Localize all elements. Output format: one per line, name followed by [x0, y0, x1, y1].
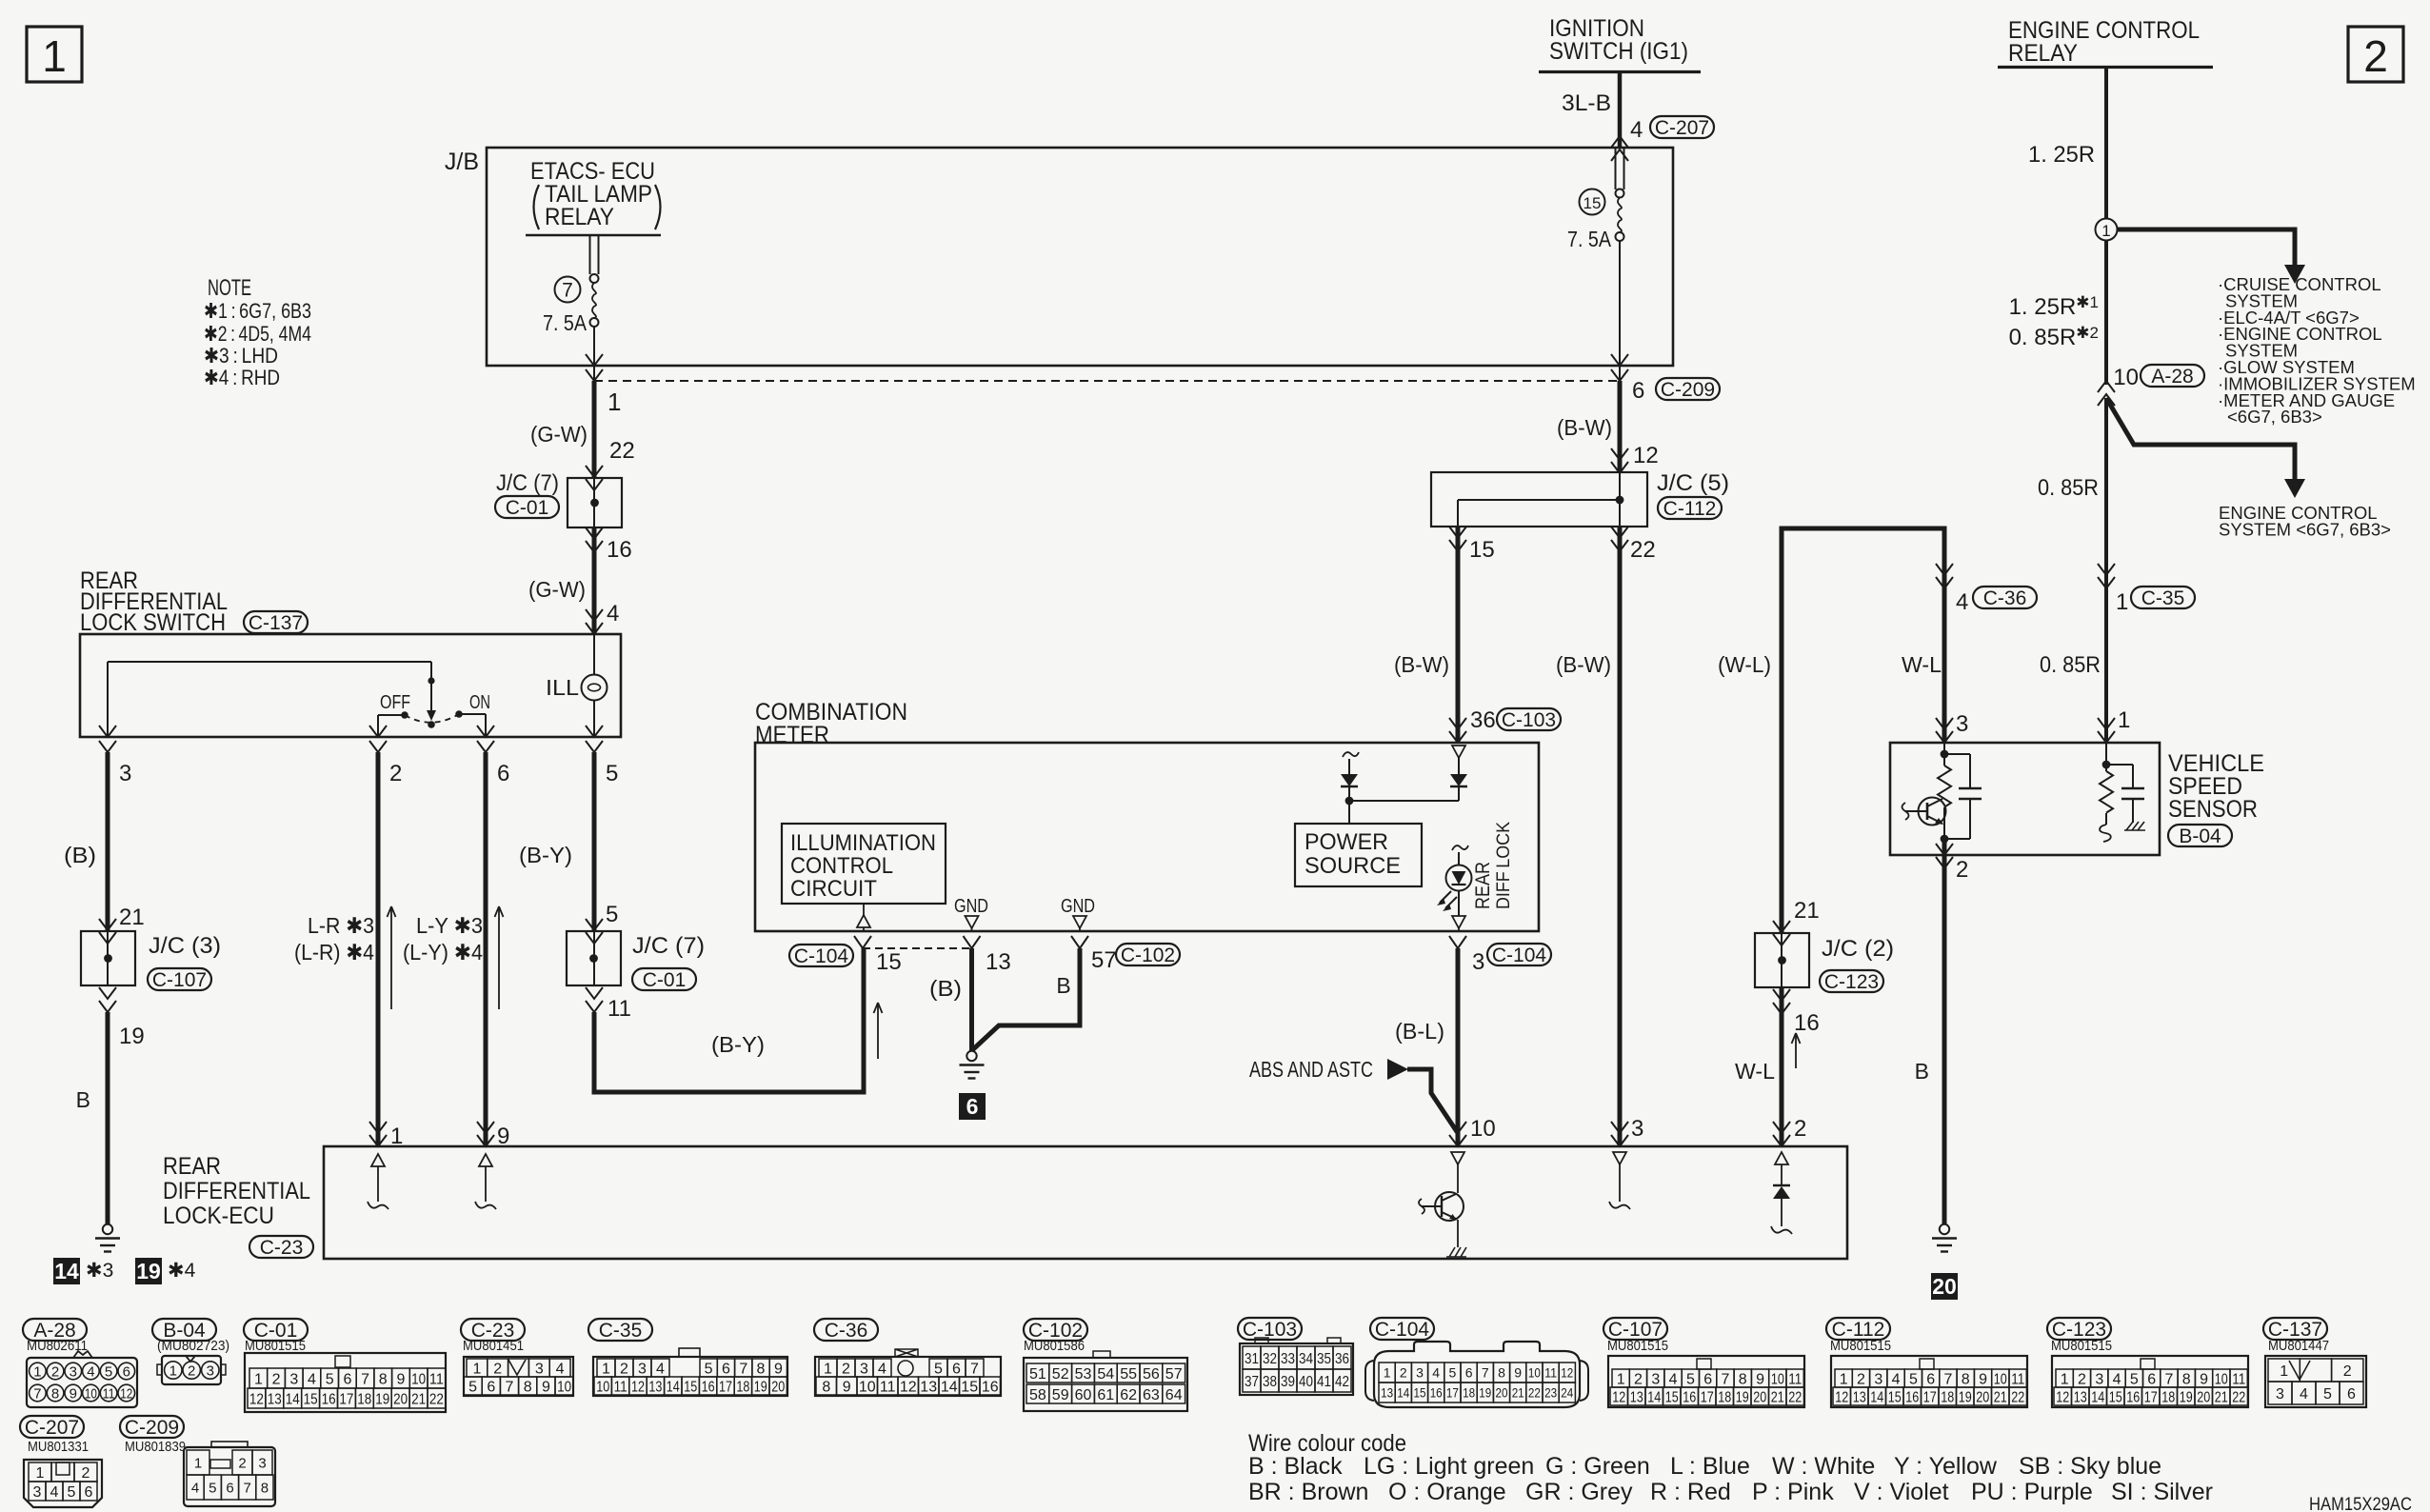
meter pin 13 [964, 936, 981, 948]
svg-text:1: 1 [2280, 1363, 2288, 1380]
rear differential lock switch box [80, 634, 621, 737]
svg-text:18: 18 [1718, 1389, 1731, 1405]
wire W-L down to speed sensor pin 3 [1942, 527, 1947, 744]
svg-text:9: 9 [497, 1124, 509, 1149]
svg-text:3L-B: 3L-B [1562, 90, 1611, 116]
svg-text:(B-W): (B-W) [1394, 652, 1449, 677]
svg-text:7: 7 [1722, 1371, 1730, 1387]
svg-text:13: 13 [920, 1379, 937, 1395]
connector 10 A-28 [2098, 381, 2115, 392]
svg-text:C-35: C-35 [599, 1320, 643, 1342]
svg-text:W-L: W-L [1735, 1059, 1775, 1084]
svg-text:3: 3 [1956, 711, 1968, 737]
svg-text:J/C (7): J/C (7) [496, 470, 559, 496]
svg-text:DIFF LOCK: DIFF LOCK [1494, 822, 1514, 909]
connector C-104 [1370, 1318, 1434, 1340]
svg-text:13: 13 [1853, 1389, 1866, 1405]
power source box [1295, 824, 1422, 886]
svg-text:17: 17 [2144, 1389, 2158, 1405]
svg-text:22: 22 [429, 1391, 444, 1407]
svg-text:12: 12 [249, 1391, 264, 1407]
svg-text:1: 1 [36, 1465, 45, 1482]
svg-text:1: 1 [33, 1363, 41, 1380]
svg-text:PU : Purple: PU : Purple [1971, 1479, 2093, 1505]
svg-text:1. 25R: 1. 25R [2028, 142, 2095, 168]
page ref 14 *3 [53, 1258, 80, 1284]
ECU pin 1 [369, 1122, 387, 1133]
svg-text:✱3: ✱3 [86, 1260, 113, 1282]
svg-text:6: 6 [123, 1363, 130, 1380]
page number box 1 [27, 27, 82, 82]
svg-text:2: 2 [2363, 31, 2388, 81]
sensor internals: output transistor [1919, 798, 1946, 826]
svg-text:2: 2 [2078, 1371, 2086, 1387]
svg-text:21: 21 [1512, 1385, 1524, 1401]
svg-text:10: 10 [1994, 1371, 2007, 1387]
svg-text:5: 5 [468, 1379, 477, 1395]
svg-text:15: 15 [1469, 537, 1495, 563]
wire (G-W) to rear diff lock switch [592, 527, 597, 634]
svg-text:B: B [1056, 973, 1070, 998]
ECU pin 9 [477, 1122, 494, 1133]
svg-text:HAM15X29AC: HAM15X29AC [2309, 1495, 2412, 1512]
svg-text:0. 85R: 0. 85R [2040, 652, 2101, 678]
svg-text:Y : Yellow: Y : Yellow [1894, 1453, 1998, 1480]
svg-text:40: 40 [1299, 1374, 1313, 1390]
svg-text:2: 2 [620, 1361, 628, 1377]
svg-text:6: 6 [952, 1361, 961, 1377]
svg-text:21: 21 [2215, 1389, 2228, 1405]
svg-text:19: 19 [2180, 1389, 2193, 1405]
meter pin 15 C-104 [854, 936, 871, 948]
svg-text:J/C (7): J/C (7) [632, 933, 705, 959]
svg-text:31: 31 [1245, 1351, 1259, 1367]
svg-text:C-107: C-107 [152, 969, 207, 991]
svg-text:15: 15 [1888, 1389, 1902, 1405]
svg-text:8: 8 [524, 1379, 532, 1395]
svg-text:4: 4 [556, 1361, 565, 1377]
page ref 20 [1931, 1273, 1958, 1300]
svg-text:9: 9 [1756, 1371, 1764, 1387]
svg-text:22: 22 [609, 438, 635, 464]
svg-text:C-104: C-104 [1492, 945, 1547, 966]
svg-text:56: 56 [1143, 1366, 1160, 1383]
svg-text:6: 6 [1926, 1371, 1935, 1387]
svg-text:2: 2 [1857, 1371, 1865, 1387]
svg-text:C-36: C-36 [825, 1320, 868, 1342]
svg-text:62: 62 [1120, 1387, 1137, 1403]
ECU pin 2 with diode [1773, 1122, 1790, 1133]
switch pin 2 [369, 726, 387, 737]
svg-text:1: 1 [2061, 1371, 2069, 1387]
svg-text:2: 2 [493, 1361, 502, 1377]
svg-text:16: 16 [2126, 1389, 2140, 1405]
svg-text:7. 5A: 7. 5A [1567, 227, 1612, 251]
svg-text:METER: METER [755, 722, 829, 748]
svg-text:4: 4 [2300, 1386, 2308, 1403]
ground right [1940, 1224, 1949, 1234]
svg-text:✱4 : RHD: ✱4 : RHD [204, 366, 280, 389]
svg-text:CIRCUIT: CIRCUIT [790, 876, 877, 902]
svg-text:14: 14 [941, 1379, 958, 1395]
svg-text:BR : Brown: BR : Brown [1248, 1479, 1368, 1505]
svg-text:(L-Y) ✱4: (L-Y) ✱4 [403, 940, 483, 965]
svg-text:POWER: POWER [1305, 829, 1388, 855]
svg-text:3: 3 [535, 1361, 544, 1377]
svg-text:13: 13 [2074, 1389, 2087, 1405]
svg-text:10: 10 [1528, 1365, 1541, 1381]
connector C-107 [1603, 1318, 1667, 1340]
ON contact [455, 710, 463, 718]
svg-text:7: 7 [739, 1361, 747, 1377]
wire (B-W) to combination meter pin 36 [1456, 527, 1461, 743]
junction block J/B [487, 148, 1673, 366]
connector C-102 [1024, 1319, 1087, 1341]
svg-text:24: 24 [1561, 1385, 1573, 1401]
svg-text:0. 85R: 0. 85R [2038, 475, 2099, 501]
svg-text:8: 8 [822, 1379, 830, 1395]
svg-text:11: 11 [880, 1379, 896, 1395]
svg-text:L-R ✱3: L-R ✱3 [308, 913, 374, 938]
meter internal diodes [1343, 752, 1359, 757]
svg-text:36: 36 [1335, 1351, 1349, 1367]
connector C-209 [120, 1416, 184, 1438]
wire W-L to ECU pin 2 [1780, 987, 1784, 1146]
svg-text:33: 33 [1281, 1351, 1295, 1367]
svg-text:9: 9 [70, 1385, 77, 1402]
svg-text:36: 36 [1470, 707, 1496, 733]
svg-text:17: 17 [1446, 1385, 1459, 1401]
svg-text:21: 21 [1794, 898, 1820, 924]
svg-text:C-103: C-103 [1243, 1319, 1297, 1341]
switch pin 6 [477, 726, 494, 737]
svg-text:SB : Sky blue: SB : Sky blue [2019, 1453, 2161, 1480]
svg-text:55: 55 [1120, 1366, 1137, 1383]
svg-text:16: 16 [1794, 1010, 1820, 1036]
svg-text:15: 15 [1583, 194, 1602, 212]
svg-text:SOURCE: SOURCE [1305, 853, 1401, 879]
svg-text:2: 2 [1794, 1116, 1806, 1142]
svg-text:1: 1 [602, 1361, 610, 1377]
svg-text:19: 19 [1479, 1385, 1491, 1401]
svg-text:10: 10 [411, 1371, 426, 1387]
svg-text:39: 39 [1281, 1374, 1295, 1390]
svg-text:12: 12 [631, 1379, 645, 1395]
svg-text:C-104: C-104 [794, 945, 849, 967]
svg-text:B-04: B-04 [2179, 826, 2221, 847]
svg-text:GND: GND [954, 896, 988, 917]
svg-text:(W-L): (W-L) [1718, 652, 1771, 677]
svg-text:9: 9 [397, 1371, 406, 1387]
svg-text:C-104: C-104 [1375, 1319, 1430, 1341]
svg-text:1: 1 [254, 1371, 263, 1387]
branch to cruise control systems [2118, 229, 2296, 265]
svg-text:6: 6 [2147, 1371, 2156, 1387]
svg-text:W-L: W-L [1902, 652, 1942, 677]
svg-text:11: 11 [614, 1379, 627, 1395]
svg-text:7: 7 [1944, 1371, 1953, 1387]
svg-text:7. 5A: 7. 5A [543, 310, 588, 335]
dashed link pin15-pin13 [863, 947, 971, 949]
wire (B-L) from meter pin 3 to ECU pin 10 [1456, 948, 1461, 1146]
svg-text:O : Orange: O : Orange [1388, 1479, 1506, 1505]
switch internal wiring [108, 661, 431, 663]
svg-text:16: 16 [1905, 1389, 1919, 1405]
svg-text:(B-W): (B-W) [1556, 652, 1611, 677]
svg-text:(G-W): (G-W) [528, 577, 586, 602]
meter pin 57 C-102 [1071, 936, 1088, 948]
svg-text:15: 15 [1665, 1389, 1679, 1405]
svg-text:NOTE: NOTE [208, 275, 251, 301]
svg-text:C-209: C-209 [1661, 379, 1715, 401]
wire 1.25R from engine control relay [2104, 68, 2108, 219]
svg-text:11: 11 [1788, 1371, 1802, 1387]
sensor internals: right capacitor to case ground [2106, 764, 2133, 766]
svg-text:C-207: C-207 [1655, 117, 1709, 139]
svg-text:16: 16 [702, 1379, 715, 1395]
svg-text:ILLUMINATION: ILLUMINATION [790, 830, 936, 856]
svg-text:3: 3 [1874, 1371, 1882, 1387]
junction J/C(5) C-112 [1431, 472, 1647, 527]
page number box 2 [2348, 27, 2403, 82]
wire (W-L) down to J/C(2) [1780, 527, 1784, 934]
svg-text:7: 7 [506, 1379, 514, 1395]
svg-text:10: 10 [557, 1379, 571, 1395]
svg-text:22: 22 [1788, 1389, 1802, 1405]
svg-text:20: 20 [1976, 1389, 1989, 1405]
fuse 7 (7.5A) in J/B [589, 235, 591, 274]
svg-text:J/C (2): J/C (2) [1822, 936, 1894, 962]
svg-text:18: 18 [736, 1379, 749, 1395]
svg-text:18: 18 [1463, 1385, 1475, 1401]
svg-text:9: 9 [1979, 1371, 1987, 1387]
branch to engine control system [2106, 398, 2295, 479]
svg-text:5: 5 [1686, 1371, 1695, 1387]
connector pin 1 leaving J/B [593, 366, 595, 381]
combination meter box [755, 743, 1539, 931]
dashed jumper between pin1 and pin6 [594, 380, 1620, 382]
rear differential lock ECU box [324, 1146, 1847, 1259]
svg-text:3: 3 [258, 1455, 266, 1471]
svg-text:10: 10 [2113, 365, 2139, 390]
svg-text:J/C (5): J/C (5) [1657, 470, 1729, 496]
svg-text:C-102: C-102 [1121, 945, 1175, 966]
svg-text:LOCK-ECU: LOCK-ECU [163, 1203, 274, 1229]
svg-text:19: 19 [119, 1024, 145, 1049]
sensor internals: capacitor [1944, 753, 1970, 755]
svg-text:5: 5 [105, 1363, 112, 1380]
svg-text:22: 22 [1630, 537, 1656, 563]
vehicle speed sensor box B-04 [1890, 743, 2160, 855]
connector C-36 [814, 1319, 878, 1341]
rear diff lock indicator LED [1452, 846, 1468, 850]
svg-text:4: 4 [1892, 1371, 1901, 1387]
svg-text:✱2 : 4D5, 4M4: ✱2 : 4D5, 4M4 [204, 322, 311, 346]
connector C-103 [1238, 1318, 1302, 1340]
svg-text:14: 14 [1647, 1389, 1661, 1405]
wire 0.85R down [2104, 398, 2108, 743]
svg-text:5: 5 [326, 1371, 334, 1387]
svg-text:3: 3 [289, 1371, 298, 1387]
svg-text:9: 9 [774, 1361, 783, 1377]
svg-text:64: 64 [1165, 1387, 1183, 1403]
ground 6 [966, 1051, 976, 1061]
svg-text:9: 9 [2200, 1371, 2208, 1387]
svg-text:2: 2 [188, 1363, 195, 1379]
svg-text:1: 1 [1840, 1371, 1848, 1387]
connector C-01 [244, 1319, 308, 1341]
svg-text:C-01: C-01 [506, 497, 549, 519]
svg-text:21: 21 [119, 905, 145, 930]
svg-text:16: 16 [322, 1391, 336, 1407]
svg-text:(B-Y): (B-Y) [711, 1032, 765, 1057]
svg-text:51: 51 [1029, 1366, 1046, 1383]
svg-text:OFF: OFF [380, 692, 410, 713]
svg-text:14: 14 [2091, 1389, 2104, 1405]
ground (body) left [103, 1224, 112, 1234]
svg-text:11: 11 [1544, 1365, 1557, 1381]
svg-text:<6G7, 6B3>: <6G7, 6B3> [2227, 407, 2322, 427]
J/C(5) pin 22 exit [1611, 527, 1628, 538]
svg-text:C-01: C-01 [643, 969, 687, 991]
svg-text:MU801515: MU801515 [2051, 1338, 2112, 1354]
svg-text:ON: ON [469, 692, 490, 713]
svg-text:17: 17 [339, 1391, 353, 1407]
svg-text:38: 38 [1263, 1374, 1277, 1390]
svg-text:12: 12 [2056, 1389, 2069, 1405]
svg-text:57: 57 [1091, 947, 1117, 973]
svg-text:7: 7 [562, 280, 573, 302]
svg-text:5: 5 [209, 1480, 216, 1496]
svg-text:5: 5 [2130, 1371, 2139, 1387]
svg-text:(B-Y): (B-Y) [519, 843, 572, 867]
svg-text:23: 23 [1544, 1385, 1557, 1401]
connector 6 C-209 leaving J/B [1619, 366, 1621, 381]
svg-text:REAR: REAR [163, 1153, 221, 1180]
svg-text:2: 2 [2343, 1363, 2352, 1380]
svg-text:C-36: C-36 [1983, 587, 2027, 609]
svg-text:5: 5 [2323, 1386, 2332, 1403]
svg-text:21: 21 [1771, 1389, 1784, 1405]
svg-text:6: 6 [1465, 1365, 1473, 1381]
svg-text:19: 19 [754, 1379, 767, 1395]
svg-text:MU801515: MU801515 [245, 1338, 306, 1354]
svg-text:60: 60 [1075, 1387, 1092, 1403]
svg-text:B: B [1915, 1059, 1929, 1084]
connector A-28 [23, 1319, 87, 1341]
svg-text:8: 8 [1739, 1371, 1747, 1387]
connector C-35 [588, 1319, 652, 1341]
wire B to ground 20 [1942, 839, 1947, 1224]
svg-text:37: 37 [1245, 1374, 1259, 1390]
ILL illumination bulb [593, 634, 595, 675]
svg-text:(B-W): (B-W) [1557, 415, 1612, 440]
svg-text:7: 7 [244, 1480, 251, 1496]
svg-text:20: 20 [1932, 1274, 1957, 1299]
svg-text:6: 6 [1632, 378, 1644, 404]
connector C-23 [461, 1319, 525, 1341]
svg-text:10: 10 [596, 1379, 609, 1395]
switch pin 5 [586, 726, 603, 737]
svg-text:52: 52 [1052, 1366, 1069, 1383]
svg-text:13: 13 [1381, 1385, 1393, 1401]
svg-text:3: 3 [1651, 1371, 1660, 1387]
svg-text:C-137: C-137 [249, 612, 303, 634]
sensor internals: right resistor to ground [2105, 743, 2107, 771]
svg-text:✱1 : 6G7, 6B3: ✱1 : 6G7, 6B3 [204, 299, 311, 323]
svg-text:4: 4 [1432, 1365, 1440, 1381]
svg-text:2: 2 [389, 761, 402, 786]
svg-text:10: 10 [1771, 1371, 1784, 1387]
svg-text:C-35: C-35 [2141, 587, 2185, 609]
svg-text:4: 4 [656, 1361, 665, 1377]
svg-text:1: 1 [472, 1361, 481, 1377]
svg-text:1: 1 [169, 1363, 177, 1379]
svg-text:SI : Silver: SI : Silver [2111, 1479, 2213, 1505]
wire 1.25R*1 / 0.85R*2 [2104, 241, 2108, 386]
svg-text:5: 5 [1449, 1365, 1457, 1381]
svg-text:7: 7 [2165, 1371, 2174, 1387]
svg-text:3: 3 [2095, 1371, 2103, 1387]
wire B to body ground [106, 1012, 110, 1224]
svg-text:CONTROL: CONTROL [790, 853, 893, 879]
svg-text:4: 4 [1630, 117, 1643, 143]
wire L-R from switch pin 2 to ECU pin 1 [376, 752, 381, 1146]
svg-text:9: 9 [1514, 1365, 1522, 1381]
svg-text:14: 14 [286, 1391, 300, 1407]
svg-text:9: 9 [542, 1379, 550, 1395]
svg-text:7: 7 [1482, 1365, 1489, 1381]
svg-text:5: 5 [934, 1361, 943, 1377]
svg-text:17: 17 [1701, 1389, 1714, 1405]
wire 3L-B from ignition switch [1618, 72, 1623, 149]
svg-text:3: 3 [860, 1361, 868, 1377]
svg-text:SYSTEM <6G7, 6B3>: SYSTEM <6G7, 6B3> [2219, 519, 2391, 539]
svg-text:MU801515: MU801515 [1830, 1338, 1891, 1354]
svg-text:C-209: C-209 [125, 1417, 179, 1439]
svg-text:16: 16 [1683, 1389, 1696, 1405]
svg-text:1: 1 [1384, 1365, 1391, 1381]
svg-text:RELAY: RELAY [2008, 40, 2078, 67]
svg-text:22: 22 [2011, 1389, 2024, 1405]
svg-text:5: 5 [606, 761, 618, 786]
svg-text:21: 21 [411, 1391, 426, 1407]
svg-text:LG : Light green: LG : Light green [1364, 1453, 1534, 1480]
svg-text:GR : Grey: GR : Grey [1525, 1479, 1633, 1505]
page ref 19 *4 [135, 1258, 162, 1284]
svg-text:16: 16 [607, 537, 632, 563]
svg-text:1: 1 [607, 388, 621, 416]
svg-text:4: 4 [87, 1363, 94, 1380]
svg-text:7: 7 [361, 1371, 369, 1387]
svg-text:4: 4 [308, 1371, 316, 1387]
meter pin 3 C-104 [1449, 936, 1466, 948]
svg-text:B : Black: B : Black [1248, 1453, 1343, 1480]
svg-text:✱4: ✱4 [168, 1260, 196, 1282]
connector C-123 [2047, 1318, 2111, 1340]
connector 1 C-35 [2098, 564, 2115, 575]
svg-text:12: 12 [1561, 1365, 1573, 1381]
svg-text:14: 14 [1870, 1389, 1883, 1405]
svg-text:21: 21 [1994, 1389, 2007, 1405]
svg-text:(G-W): (G-W) [530, 422, 588, 447]
svg-text:16: 16 [982, 1379, 999, 1395]
wire (B-W) from J/B pin 6 [1618, 381, 1623, 472]
svg-text:MU801586: MU801586 [1024, 1338, 1085, 1354]
svg-text:20: 20 [1496, 1385, 1508, 1401]
svg-text:G : Green: G : Green [1545, 1453, 1650, 1480]
svg-text:12: 12 [1612, 1389, 1625, 1405]
